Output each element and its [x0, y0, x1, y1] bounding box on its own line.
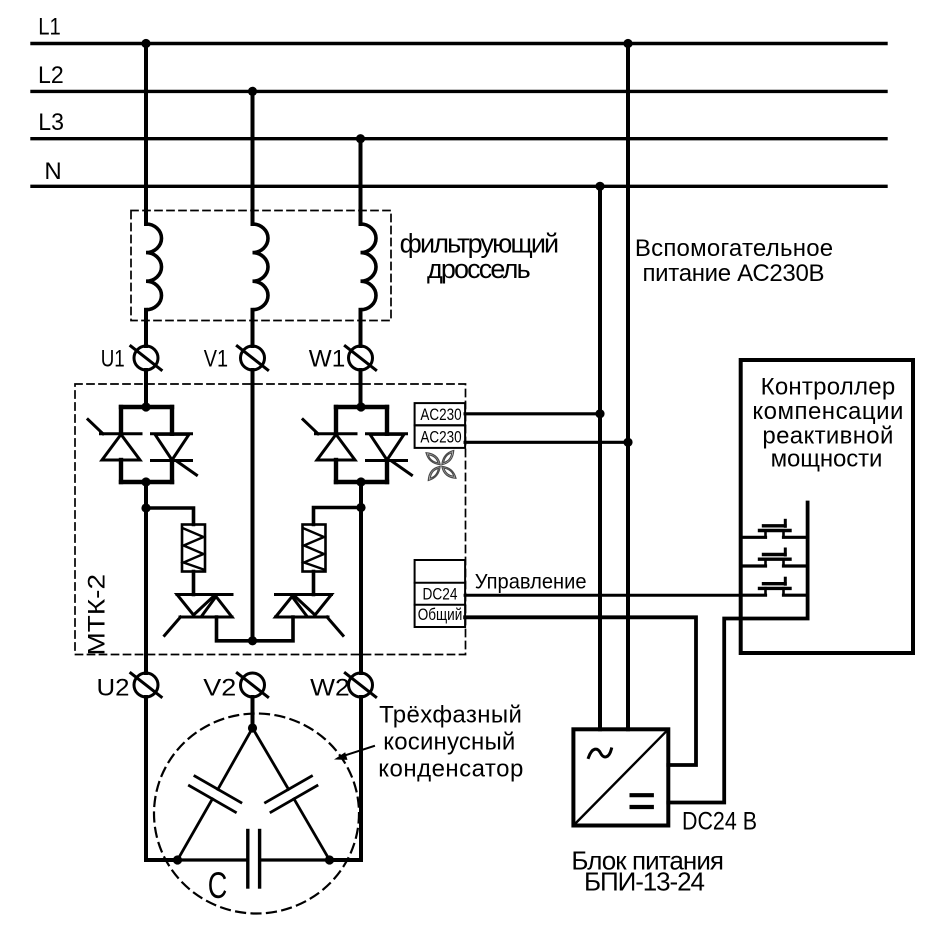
svg-text:Общий: Общий: [418, 605, 463, 624]
bus N: [32, 185, 886, 188]
inductor L-V: [253, 224, 268, 310]
svg-text:Контроллер: Контроллер: [761, 373, 896, 400]
thyristor module U: frame: [121, 407, 172, 482]
wire AC230-2 to L1 aux: [465, 441, 628, 444]
capacitor bank dashed circle: [154, 714, 359, 914]
svg-text:U1: U1: [101, 346, 125, 373]
inductor L-W: [361, 224, 376, 310]
terminal U2: [131, 673, 161, 697]
terminal V1: [237, 346, 267, 370]
svg-text:U2: U2: [97, 675, 130, 702]
wire phase V drop: [251, 91, 255, 224]
label filter choke: [400, 229, 560, 285]
node V common: [248, 636, 257, 645]
svg-text:МТК-2: МТК-2: [84, 574, 111, 656]
wire triac U to node V: [217, 617, 254, 641]
node N-aux junction: [595, 182, 604, 191]
svg-text:V1: V1: [204, 346, 228, 373]
wire U branch to resistor: [146, 508, 194, 525]
bus L1: [32, 42, 886, 45]
wire contact common bus: [668, 503, 807, 803]
thyristor W left (conducts up): [303, 420, 356, 461]
bus L3: [32, 137, 886, 140]
wire V1 down: [251, 370, 255, 641]
svg-text:компенсации: компенсации: [752, 398, 903, 425]
svg-text:конденсатор: конденсатор: [378, 756, 523, 783]
node module U bottom: [141, 477, 150, 486]
wire phase U drop: [144, 44, 148, 225]
arrow annotation: [334, 746, 374, 760]
svg-text:Управление: Управление: [475, 570, 587, 594]
node delta right: [325, 855, 334, 864]
capacitor C1 (left side): [178, 728, 253, 860]
node delta apex: [248, 723, 257, 732]
svg-text:L2: L2: [38, 62, 64, 89]
svg-text:L3: L3: [38, 109, 64, 136]
node module W bottom: [356, 477, 365, 486]
svg-text:дроссель: дроссель: [427, 254, 531, 284]
svg-text:косинусный: косинусный: [383, 729, 515, 756]
relay contact K1: [743, 520, 808, 537]
svg-text:C: C: [208, 865, 228, 906]
AC230 terminal box 1: [415, 403, 466, 425]
resistor R-U zigzag: [184, 529, 204, 570]
wire V2 to delta apex: [251, 697, 255, 728]
wire choke to V1: [251, 310, 255, 346]
wire U2 to delta: [146, 697, 178, 860]
terminal W2: [345, 673, 375, 697]
power supply DC equals: [632, 795, 652, 807]
svg-text:мощности: мощности: [771, 446, 883, 473]
triac W: [276, 595, 344, 636]
svg-text:AC230: AC230: [420, 428, 461, 447]
wire aux N drop: [598, 186, 602, 729]
label aux supply: [635, 235, 833, 287]
thyristor U left (conducts up): [88, 420, 141, 461]
node module W top: [356, 402, 365, 411]
terminal W1: [345, 346, 375, 370]
wire DC24 control: [465, 594, 741, 597]
fan icon: [413, 438, 468, 493]
svg-text:БПИ-13-24: БПИ-13-24: [584, 867, 705, 897]
node L3-W junction: [356, 134, 365, 143]
svg-text:L1: L1: [38, 14, 61, 41]
wire U1 to module: [144, 370, 148, 407]
resistor R-U box: [182, 525, 205, 572]
wire resistor W to triac: [312, 572, 316, 595]
thyristor U right (conducts down): [152, 434, 197, 475]
resistor R-W box: [303, 525, 326, 572]
relay contact K2: [743, 549, 808, 566]
svg-text:Трёхфазный: Трёхфазный: [379, 702, 522, 729]
wire choke to W1: [359, 310, 363, 346]
triac U: [165, 595, 233, 636]
thyristor W right (conducts down): [367, 434, 412, 475]
power supply AC tilde: [589, 749, 612, 758]
wire triac W to node V: [253, 617, 293, 641]
label capacitor annotation: [378, 702, 523, 783]
node L1-U junction: [141, 39, 150, 48]
svg-text:питание АС230В: питание АС230В: [643, 260, 825, 287]
node L2-V junction: [248, 87, 257, 96]
svg-text:Вспомогательное: Вспомогательное: [635, 235, 833, 262]
svg-text:V2: V2: [203, 675, 236, 702]
wire W2 to delta: [330, 697, 362, 860]
svg-text:W1: W1: [309, 346, 345, 373]
wire W branch to resistor: [314, 508, 362, 525]
thyristor module W: frame: [336, 407, 387, 482]
terminal V2: [237, 673, 267, 697]
wire module W to W2: [359, 482, 363, 673]
wire W1 to module: [359, 370, 363, 407]
label controller: [752, 373, 903, 472]
wire phase W drop: [359, 139, 363, 224]
svg-text:AC230: AC230: [420, 405, 461, 424]
relay contact K3: [743, 578, 808, 595]
AC230 terminal box 2: [415, 425, 466, 448]
node module U top: [141, 402, 150, 411]
inductor L-U: [146, 224, 162, 310]
terminal U1: [131, 346, 161, 370]
node L1-aux junction: [623, 39, 632, 48]
svg-text:DC24: DC24: [423, 584, 458, 603]
svg-text:W2: W2: [310, 675, 350, 702]
wire AC230-1 to N aux: [465, 412, 600, 415]
controller box: [741, 360, 913, 653]
power supply diagonal: [573, 729, 668, 825]
capacitor C2 (right side): [253, 728, 330, 860]
svg-text:N: N: [44, 158, 61, 185]
wire choke to U1: [144, 310, 148, 346]
node U branch: [141, 503, 150, 512]
node AC230-2 junction: [623, 438, 632, 447]
filter choke dashed box: [131, 211, 391, 321]
capacitor C3 (bottom): [178, 831, 330, 888]
bus L2: [32, 90, 886, 93]
resistor R-W zigzag: [304, 529, 324, 570]
svg-text:DC24 В: DC24 В: [682, 808, 757, 836]
power supply box U3: [573, 729, 668, 825]
node AC230-1 junction: [595, 409, 604, 418]
wire resistor U to triac: [192, 572, 196, 595]
DC24 terminal group box: [415, 560, 466, 627]
wire aux L1 drop: [626, 44, 630, 730]
label PSU name: [571, 846, 724, 897]
wire Obshchiy to PSU: [465, 617, 696, 765]
wire module U to U2: [144, 482, 148, 673]
node W branch: [356, 503, 365, 512]
MTK-2 dashed box: [75, 384, 466, 655]
node delta left: [173, 855, 182, 864]
